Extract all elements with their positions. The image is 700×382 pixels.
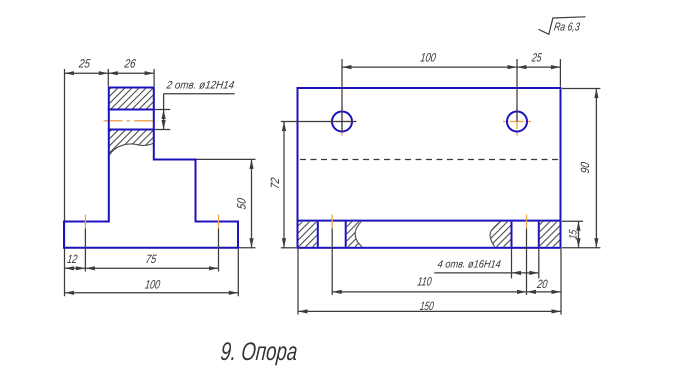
leader 2 holes d12 <box>155 109 171 111</box>
svg-text:100: 100 <box>144 277 161 291</box>
dimension 15 <box>562 220 583 222</box>
surface finish Ra 6,3 <box>539 17 586 35</box>
hole wall extension lines <box>511 249 513 279</box>
hatch C with break <box>490 222 511 247</box>
svg-text:2 отв. ø12Н14: 2 отв. ø12Н14 <box>165 79 235 91</box>
foot centerlines right view <box>331 215 333 229</box>
svg-text:25: 25 <box>530 50 542 64</box>
svg-text:50: 50 <box>234 197 248 210</box>
outline left view <box>64 88 238 248</box>
break line (wavy) <box>109 143 154 155</box>
dimension 50 <box>197 158 256 160</box>
top holes <box>332 112 352 132</box>
hatch B with break <box>347 222 362 247</box>
centerline crosses top holes <box>328 121 332 123</box>
svg-text:26: 26 <box>123 56 137 70</box>
svg-text:150: 150 <box>419 299 435 313</box>
hatch A <box>299 222 317 247</box>
hole bottom edge <box>108 129 154 131</box>
dimension 100 / 25 top <box>341 59 343 132</box>
dimension 150 <box>297 249 299 315</box>
hatch lower block with break <box>109 131 154 156</box>
svg-text:20: 20 <box>536 277 549 291</box>
hidden dashed line <box>300 159 560 161</box>
hole top edge <box>108 109 154 111</box>
hatch D <box>540 222 560 247</box>
dimension 12 / 75 <box>65 267 219 269</box>
dimension 100 <box>237 249 239 296</box>
svg-text:72: 72 <box>268 177 282 190</box>
hatch upper block <box>109 89 153 110</box>
dimension 25/26 <box>107 69 109 86</box>
wire: extension line left edge full height <box>64 69 66 296</box>
svg-text:4 отв. ø16Н14: 4 отв. ø16Н14 <box>437 259 502 271</box>
svg-text:9. Опора: 9. Опора <box>219 338 298 366</box>
leader 4 holes d16 <box>434 272 539 274</box>
outline right view <box>298 88 561 248</box>
svg-text:100: 100 <box>419 51 437 65</box>
svg-text:110: 110 <box>417 274 433 288</box>
svg-text:25: 25 <box>77 56 91 70</box>
foot centerlines left view <box>84 215 86 229</box>
centerline of hole (orange) <box>104 120 158 122</box>
svg-text:12: 12 <box>66 252 78 266</box>
dimension 90 <box>562 88 600 90</box>
svg-text:75: 75 <box>145 252 158 266</box>
base strip top edge <box>298 220 561 222</box>
dimension 72 <box>281 121 357 123</box>
dimension 110 / 20 <box>332 291 561 293</box>
svg-text:90: 90 <box>578 161 592 174</box>
svg-text:Ra 6,3: Ra 6,3 <box>553 21 581 33</box>
hole walls in strip <box>317 222 319 247</box>
